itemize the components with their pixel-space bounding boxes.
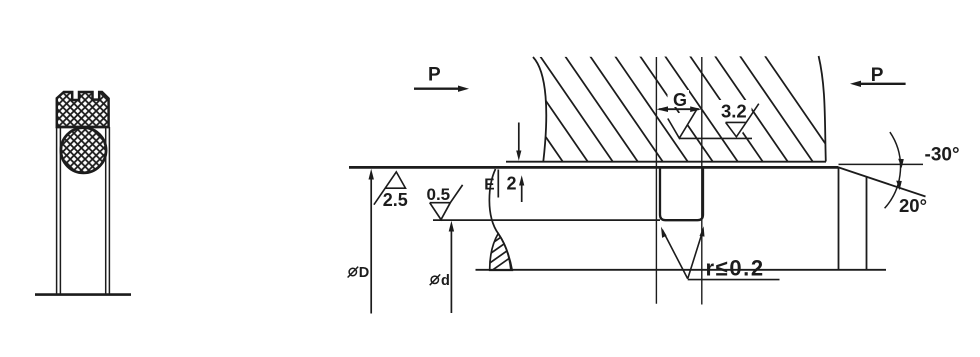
seal cap bottom edge <box>57 126 109 128</box>
G arrowhead right <box>690 106 702 112</box>
groove profile <box>660 167 703 220</box>
housing bottom edge <box>506 161 826 163</box>
chamfer 20 deg line <box>839 167 926 196</box>
svg-text:3.2: 3.2 <box>721 101 747 122</box>
G arrowhead left <box>657 106 669 112</box>
groove bottom construction line (d line) <box>433 219 660 221</box>
seal cap (hatched profile with notched top) <box>57 92 109 127</box>
base line <box>35 293 131 296</box>
G dimension arrow <box>659 108 699 110</box>
groove wall left outer <box>56 127 58 295</box>
diameter d label <box>430 273 450 289</box>
svg-text:d: d <box>441 273 450 289</box>
P left arrow <box>414 88 461 90</box>
dimension tick line <box>497 170 499 198</box>
groove wall right inner <box>105 127 107 295</box>
svg-text:D: D <box>359 265 369 281</box>
groove wall right outer <box>108 127 110 295</box>
construction line left <box>655 57 657 304</box>
svg-text:2.5: 2.5 <box>383 190 408 210</box>
small up arrow below main line <box>521 180 523 202</box>
roughness leader line <box>679 137 752 139</box>
r leader underline <box>688 279 780 281</box>
housing right curved edge <box>819 56 826 162</box>
arc arrowhead at extension line <box>898 159 904 169</box>
3.2 roughness symbol <box>726 104 759 137</box>
construction line right <box>701 57 703 305</box>
diameter D label <box>348 265 370 281</box>
groove wall left inner <box>59 127 61 295</box>
0.5 roughness symbol <box>430 185 463 220</box>
arc arrowhead at chamfer <box>896 181 902 191</box>
angle dimension arc <box>885 132 901 208</box>
svg-text:G: G <box>673 90 687 110</box>
diameter d dimension arrow <box>450 225 452 314</box>
broken-out section lens (hatched) <box>490 234 513 271</box>
basic check symbol <box>668 108 698 138</box>
white halos for annotations inside hatch <box>668 90 690 107</box>
svg-text:20°: 20° <box>899 195 927 216</box>
svg-text:P: P <box>428 64 441 85</box>
rod end vertical 1 <box>838 167 840 269</box>
svg-text:r≤0.2: r≤0.2 <box>706 255 765 280</box>
P right arrow <box>858 83 906 85</box>
main bore line <box>349 166 839 169</box>
svg-text:-30°: -30° <box>925 145 960 166</box>
r radius arrows <box>662 230 703 279</box>
rod end vertical 2 <box>866 177 868 270</box>
svg-text:0.5: 0.5 <box>427 185 451 204</box>
wavy break line <box>489 169 511 270</box>
diameter D dimension arrow <box>370 174 372 314</box>
housing left wavy edge <box>533 57 546 162</box>
housing block hatch <box>440 56 838 162</box>
O-ring (hatched circle) <box>61 128 106 173</box>
right extension line <box>839 163 924 165</box>
small down arrow above main line <box>518 123 520 154</box>
2.5 roughness symbol (flipped, pointing up to bore line) <box>374 172 406 205</box>
rod bottom line <box>476 269 887 271</box>
svg-text:2: 2 <box>507 174 517 194</box>
